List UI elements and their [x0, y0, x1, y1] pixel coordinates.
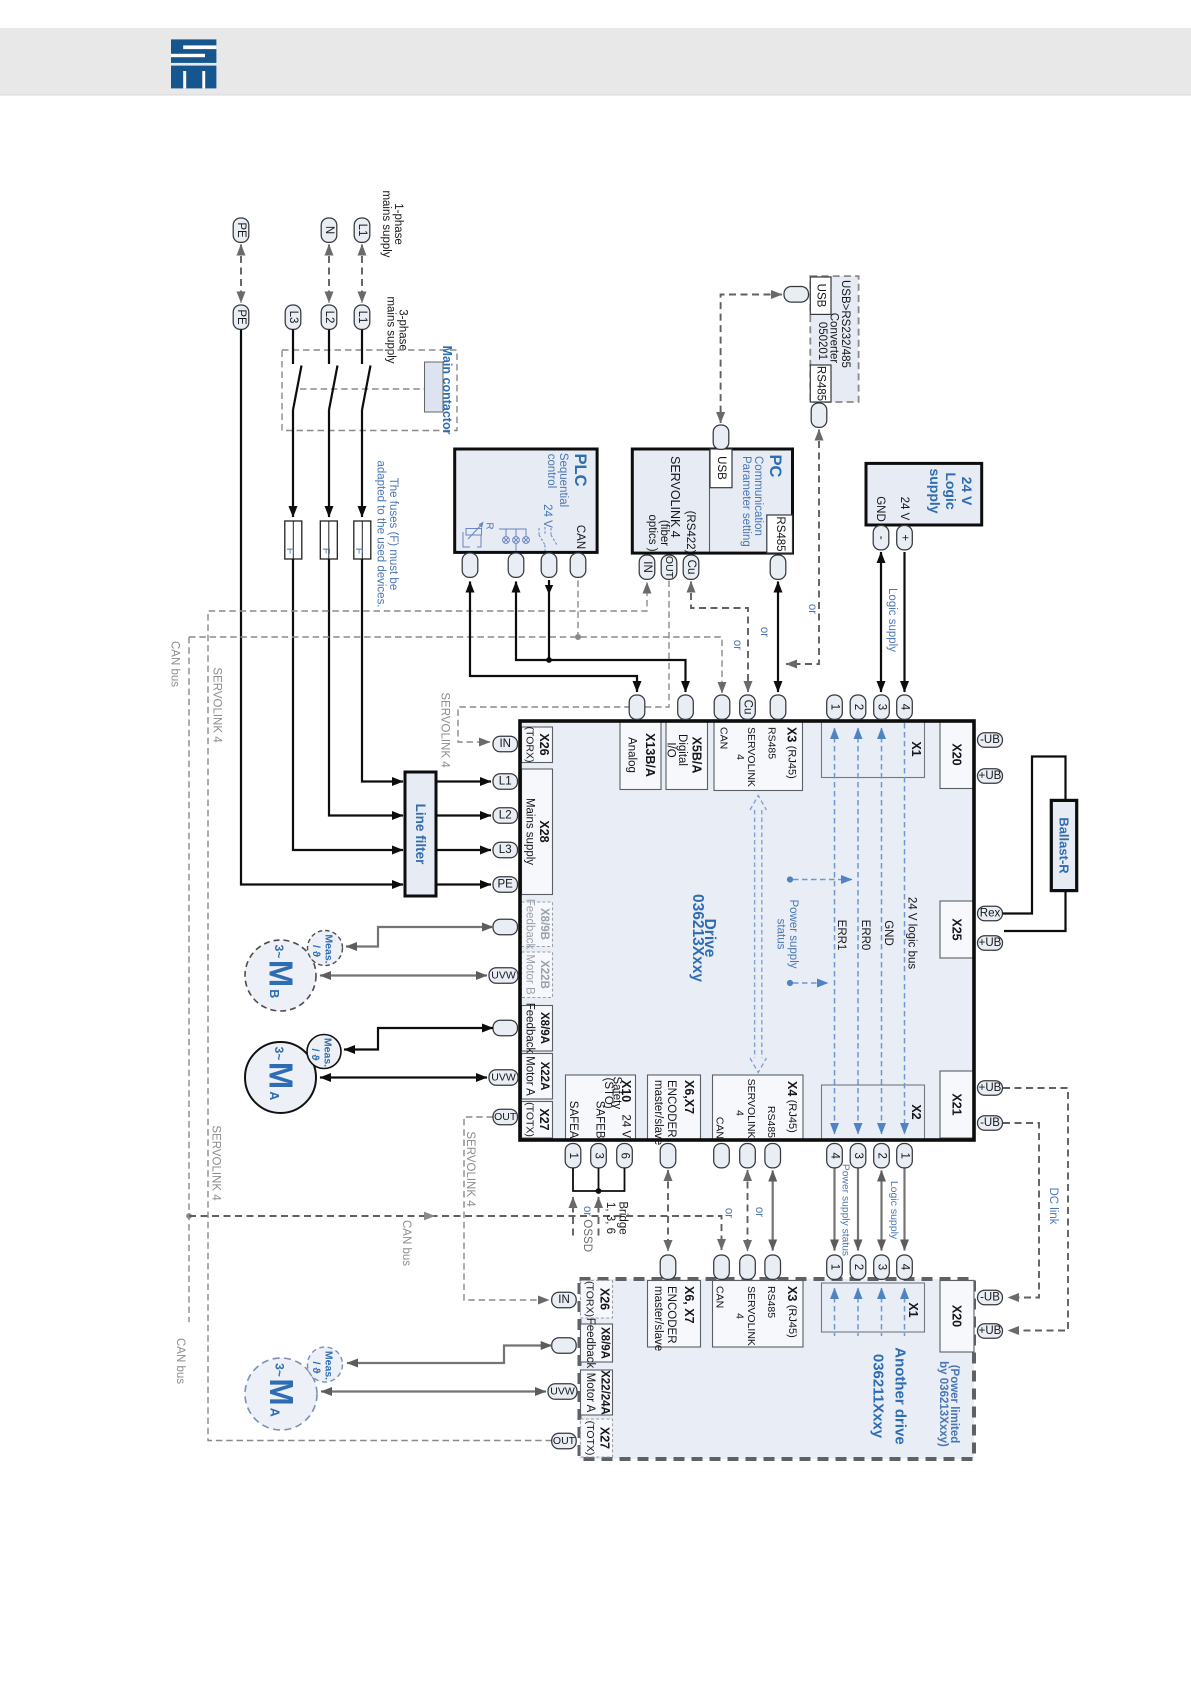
svg-text:1: 1 [899, 1152, 911, 1158]
svg-text:X20: X20 [950, 743, 964, 765]
24V plus pill [897, 526, 913, 550]
svg-text:UVW: UVW [491, 970, 516, 982]
wire UVW A [320, 1076, 487, 1078]
box X2 [822, 1085, 925, 1140]
svg-text:ENCODER: ENCODER [665, 1286, 677, 1344]
wire filter to L1 pill [436, 780, 491, 782]
fuse F3 [353, 521, 371, 559]
PC OUT fiber to drive IN [458, 581, 669, 743]
link col2 [880, 1171, 882, 1251]
PC USB subbox [710, 449, 732, 488]
strip X27 [522, 1102, 553, 1139]
motor A2 circle [245, 1358, 317, 1430]
drive bottom pill 2 [874, 1144, 890, 1168]
svg-text:Another drive: Another drive [892, 1347, 909, 1445]
drive right pill +UB [978, 769, 1003, 784]
strip X26 [522, 727, 553, 763]
svg-text:Cu: Cu [685, 560, 697, 575]
svg-text:24 V: 24 V [620, 1114, 632, 1138]
svg-text:mains supply: mains supply [385, 296, 397, 363]
svg-text:X6,X7: X6,X7 [682, 1080, 696, 1114]
svg-text:SERVOLINK 4: SERVOLINK 4 [210, 1125, 222, 1201]
junction dot CAN bus lower [186, 1213, 192, 1219]
box X1 lower [822, 1283, 925, 1332]
wire filter to L3 pill [436, 849, 491, 851]
svg-text:X13B/A: X13B/A [643, 733, 657, 777]
svg-text:Line filter: Line filter [413, 804, 428, 866]
svg-text:or: or [723, 1208, 735, 1218]
svg-text:RS485: RS485 [815, 366, 827, 401]
link col1 [903, 1169, 905, 1251]
drive top pill CAN [714, 695, 730, 719]
OSSD dashed 1 [572, 1197, 574, 1236]
svg-text:Feedback: Feedback [524, 1003, 536, 1054]
meas B circle [308, 931, 343, 966]
svg-text:The fuses (F) must be: The fuses (F) must be [387, 478, 399, 590]
svg-text:3: 3 [852, 1152, 864, 1158]
svg-text:Logic supply: Logic supply [886, 588, 898, 652]
svg-text:ENCODER: ENCODER [665, 1080, 677, 1138]
svg-text:4: 4 [829, 1152, 841, 1159]
svg-text:USB>RS232/485: USB>RS232/485 [839, 280, 851, 368]
contactor coil [425, 362, 444, 412]
wire 24V to pill4 [903, 552, 905, 692]
PLC box [455, 449, 597, 552]
lower top pill 1 [827, 1255, 843, 1279]
svg-text:4: 4 [734, 1110, 746, 1116]
svg-text:3: 3 [876, 1264, 888, 1270]
svg-text:3~: 3~ [273, 1363, 287, 1377]
svg-text:X27: X27 [537, 1108, 551, 1130]
lower top pill srv [740, 1255, 756, 1279]
meas A2 circle [308, 1347, 343, 1382]
svg-text:1: 1 [829, 704, 841, 710]
24V minus pill [873, 526, 889, 550]
box X20 [940, 721, 974, 789]
drive top pill 2 [850, 695, 866, 719]
drive bottom pill rs485 [765, 1144, 781, 1168]
CAN bus mid arrow [424, 1212, 435, 1221]
svg-text:2: 2 [876, 1152, 888, 1158]
drive left pill fbB [493, 919, 518, 935]
strip X13B/A [620, 721, 661, 790]
lower top pill 4 [897, 1255, 913, 1279]
drive top pill 1 [827, 695, 843, 719]
svg-text:X8/9A: X8/9A [538, 1012, 550, 1044]
svg-text:Meas.: Meas. [323, 1351, 335, 1380]
PC pill Cu [683, 555, 699, 579]
svg-text:1: 1 [829, 1264, 841, 1270]
wire converter RS485 or [786, 430, 819, 665]
drive bottom pill 3 [850, 1144, 866, 1168]
wire L1 dashed [361, 245, 363, 303]
svg-text:3: 3 [876, 704, 888, 710]
svg-text:X1: X1 [906, 1302, 920, 1317]
svg-text:4: 4 [734, 1313, 746, 1319]
blue stub 3 lower [881, 1288, 883, 1336]
svg-text:CAN: CAN [714, 1117, 726, 1139]
svg-text:Power supply: Power supply [787, 899, 799, 968]
box X25 [940, 901, 974, 958]
svg-text:F: F [320, 548, 332, 554]
OSSD dashed 2 [598, 1197, 600, 1236]
ballast wire top [1003, 757, 1066, 914]
svg-text:Rex: Rex [980, 908, 1001, 920]
svg-text:X22/24A: X22/24A [599, 1370, 611, 1415]
svg-text:(RS422): (RS422) [684, 511, 696, 554]
svg-text:4: 4 [899, 1264, 911, 1271]
CAN bus branch to lower drive [189, 1216, 722, 1250]
svg-text:Cu: Cu [742, 700, 754, 715]
wire PLC CAN drop [577, 581, 579, 635]
svg-text:-: - [875, 536, 887, 540]
drive top pill 3 [874, 695, 890, 719]
PLC pill 2 [508, 553, 524, 577]
wire PC RS485 to drive RS485 [777, 582, 779, 693]
wire L3 to fuse [292, 410, 294, 517]
svg-text:Feedback: Feedback [524, 899, 536, 950]
svg-text:USB: USB [815, 284, 827, 308]
strip X22/24A lower [581, 1370, 613, 1415]
svg-text:L1: L1 [499, 776, 512, 788]
plc switches [539, 527, 557, 551]
drive 036213Xxxy body [520, 721, 974, 1140]
drive bottom pill srv [740, 1144, 756, 1168]
ballast wire bottom [1004, 892, 1066, 931]
svg-text:X3 (RJ45): X3 (RJ45) [785, 727, 799, 779]
drive left pill UVW A [489, 1070, 518, 1086]
svg-text:L3: L3 [287, 311, 299, 324]
strip X8/9A lower [581, 1324, 613, 1362]
svg-text:Mains supply: Mains supply [524, 798, 536, 865]
svg-text:Motor A: Motor A [524, 1056, 536, 1096]
node PE 3-phase [233, 305, 249, 329]
drive top pill digital [678, 695, 694, 719]
USB converter box [810, 276, 858, 402]
fuse F1 [284, 521, 302, 559]
svg-text:(TORX): (TORX) [524, 727, 536, 763]
strip X4 [713, 1075, 804, 1140]
wire L1 to filter [362, 559, 403, 782]
svg-text:GND: GND [874, 496, 886, 522]
svg-text:PE: PE [235, 309, 247, 325]
blue stub 1 lower [834, 1288, 836, 1336]
lower top pill rs485 [765, 1255, 781, 1279]
drive left pill L3 [493, 842, 518, 858]
svg-text:(TOTX): (TOTX) [524, 1102, 536, 1137]
strip X5B/A [666, 721, 708, 790]
svg-text:PLC: PLC [571, 454, 589, 487]
motor B circle [245, 940, 316, 1011]
lower left pill OUT [552, 1433, 577, 1449]
drive right pill -UB X21 [978, 1116, 1003, 1131]
PC pill IN [639, 555, 655, 579]
lower left pill IN [552, 1292, 577, 1308]
lamps [499, 529, 529, 551]
svg-text:X1: X1 [909, 741, 923, 756]
svg-text:adapted to the used devices.: adapted to the used devices. [375, 460, 387, 607]
drive bottom pill CAN [714, 1144, 730, 1168]
wire L3 to filter [293, 559, 403, 850]
svg-text:2: 2 [852, 1264, 864, 1270]
motor A circle [245, 1042, 316, 1113]
svg-text:CAN: CAN [574, 525, 586, 549]
svg-text:Motor B: Motor B [524, 954, 536, 995]
wire L2 to filter [329, 559, 403, 816]
svg-text:SERVOLINK 4: SERVOLINK 4 [464, 1131, 476, 1207]
switch L3 [293, 330, 302, 411]
drive right pill -UB [978, 733, 1003, 748]
potentiometer R [463, 522, 495, 548]
DC link -UB [1003, 1123, 1039, 1298]
svg-text:L1: L1 [356, 224, 368, 237]
svg-text:4: 4 [734, 754, 746, 760]
svg-text:USB: USB [715, 456, 727, 480]
svg-text:F: F [353, 548, 365, 554]
svg-text:CAN: CAN [718, 727, 730, 749]
24V logic supply box [866, 463, 982, 525]
PC pill RS485 [770, 555, 786, 579]
switch L1 [362, 330, 371, 411]
svg-text:Power supply status: Power supply status [840, 1164, 851, 1256]
link col3 [857, 1169, 859, 1251]
svg-text:/ ϑ: / ϑ [309, 1049, 321, 1062]
drive bottom pill s1 [565, 1144, 581, 1168]
svg-text:(TORX): (TORX) [584, 1281, 596, 1317]
drive left pill UVW B [489, 968, 518, 984]
svg-text:RS485: RS485 [765, 1286, 777, 1318]
svg-text:master/slave: master/slave [652, 1080, 664, 1145]
svg-text:PC: PC [766, 455, 784, 478]
node L1 3-phase [354, 305, 370, 329]
drive bottom pill 4 [827, 1144, 843, 1168]
drive bottom pill s3 [591, 1144, 607, 1168]
lower top pill CAN [714, 1255, 730, 1279]
svg-text:Bridge: Bridge [617, 1201, 629, 1234]
drive right pill Rex [978, 906, 1003, 921]
drive left pill fbA [493, 1020, 518, 1036]
svg-text:+UB: +UB [979, 770, 1002, 782]
power status arrow 2 [787, 980, 793, 986]
wire GND to pill3 [880, 552, 882, 692]
wire UVW B [320, 974, 487, 976]
svg-text:3: 3 [593, 1152, 605, 1158]
svg-text:OUT: OUT [663, 556, 675, 579]
box X1 [822, 721, 925, 778]
PC pill OUT [661, 555, 677, 579]
svg-text:SERVOLINK 4: SERVOLINK 4 [211, 667, 223, 743]
wire feedback A [344, 1028, 493, 1050]
drive bottom pill 1 [897, 1144, 913, 1168]
switch L2 [329, 330, 338, 411]
junction dot PLC CAN [575, 634, 581, 640]
svg-text:GND: GND [882, 920, 894, 946]
node L2 [321, 305, 337, 329]
drive bottom pill s6 [617, 1144, 633, 1168]
svg-text:Logic: Logic [943, 472, 959, 510]
svg-text:+: + [899, 534, 911, 541]
strip X27 lower [581, 1419, 613, 1457]
svg-text:X20: X20 [950, 1305, 964, 1327]
wire feedback B [346, 927, 493, 947]
contactor linkage [300, 388, 424, 390]
svg-text:R: R [484, 522, 495, 529]
svg-text:036213Xxxy: 036213Xxxy [689, 894, 706, 982]
wire PE to filter [241, 330, 403, 885]
node L1 1-phase [354, 218, 370, 242]
encoder link [667, 1170, 669, 1251]
svg-text:-UB: -UB [980, 1292, 1000, 1304]
svg-text:X4 (RJ45): X4 (RJ45) [785, 1081, 799, 1133]
svg-text:control: control [545, 454, 557, 489]
svg-text:X22B: X22B [538, 960, 550, 989]
bridge 1 3 6 [573, 1168, 625, 1191]
drive left pill OUT [493, 1109, 518, 1125]
wire feedback A2 [347, 1346, 552, 1364]
svg-text:Analog: Analog [626, 737, 638, 773]
strip X8/9B [522, 902, 553, 947]
svg-text:050201: 050201 [816, 322, 828, 360]
svg-text:24 V logic bus: 24 V logic bus [906, 897, 918, 969]
svg-text:-UB: -UB [980, 734, 1000, 746]
svg-text:2: 2 [852, 704, 864, 710]
svg-text:master/slave: master/slave [652, 1286, 664, 1351]
CAN bus horizontal to drive CAN pill [189, 637, 722, 693]
svg-text:+UB: +UB [979, 937, 1002, 949]
svg-text:L2: L2 [323, 311, 335, 324]
svg-text:Sequential: Sequential [557, 453, 569, 507]
power status arrow 1 [787, 876, 793, 882]
node PE 1-phase [233, 218, 249, 242]
svg-text:X6, X7: X6, X7 [682, 1286, 696, 1324]
svg-text:Meas.: Meas. [323, 934, 335, 963]
drive top pill 4 [897, 695, 913, 719]
another drive body [580, 1279, 975, 1459]
svg-text:PE: PE [235, 222, 247, 238]
svg-text:by 036213Xxxy): by 036213Xxxy) [937, 1361, 949, 1447]
internal SERVOLINK4 hollow arrow [750, 796, 766, 1073]
svg-text:Feedback: Feedback [584, 1318, 596, 1369]
svg-text:3-phase: 3-phase [397, 309, 409, 351]
svg-text:IN: IN [641, 561, 653, 573]
svg-text:X8/9B: X8/9B [538, 908, 550, 940]
strip X22A [522, 1054, 553, 1100]
svg-text:X28: X28 [537, 820, 551, 842]
servolink link [747, 1170, 749, 1251]
meas A circle [307, 1035, 341, 1069]
drive bottom pill enc [660, 1144, 676, 1168]
svg-text:X3 (RJ45): X3 (RJ45) [785, 1286, 799, 1338]
converter USB pill [784, 287, 809, 303]
line filter [405, 772, 436, 896]
svg-text:SERVOLINK: SERVOLINK [745, 1079, 757, 1139]
drive left pill L1 [493, 774, 518, 790]
lower top pill enc [660, 1255, 676, 1279]
svg-text:optics ): optics ) [646, 514, 658, 551]
svg-text:1-phase: 1-phase [392, 203, 404, 245]
svg-text:L3: L3 [499, 844, 512, 856]
svg-text:CAN: CAN [714, 1286, 726, 1308]
lower top pill 2 [850, 1255, 866, 1279]
svg-text:4: 4 [899, 704, 911, 711]
lower right pill +UB [978, 1324, 1003, 1339]
lower right pill -UB [978, 1290, 1003, 1305]
fuse F2 [320, 521, 337, 559]
wire L1 to fuse [361, 410, 363, 517]
svg-text:OUT: OUT [494, 1111, 517, 1123]
svg-text:Parameter setting: Parameter setting [740, 456, 752, 547]
svg-text:OUT: OUT [553, 1435, 576, 1447]
drive left pill L2 [493, 808, 518, 824]
wire PC Cu to drive Cu [691, 582, 748, 693]
svg-text:or: or [753, 1207, 765, 1217]
svg-text:UVW: UVW [491, 1072, 516, 1084]
wire filter to L2 pill [436, 814, 491, 816]
drive right pill +UB X21 [978, 1081, 1003, 1096]
svg-text:(TOTX): (TOTX) [584, 1421, 596, 1456]
svg-text:F: F [284, 548, 296, 554]
svg-text:N: N [323, 226, 335, 234]
svg-text:+UB: +UB [979, 1082, 1002, 1094]
wire PLC2 to digital pill [516, 582, 686, 693]
svg-text:1, 3, 6: 1, 3, 6 [604, 1202, 616, 1234]
wire L2 to fuse [328, 410, 330, 517]
box X20 lower [940, 1281, 974, 1353]
svg-text:24 V: 24 V [541, 504, 553, 528]
strip X6X7 [648, 1075, 701, 1140]
svg-text:Motor A: Motor A [584, 1373, 596, 1413]
svg-text:/ ϑ: / ϑ [310, 1362, 322, 1375]
svg-text:SAFEB: SAFEB [594, 1101, 606, 1139]
svg-text:ERR1: ERR1 [835, 920, 847, 951]
wire PLC1 to analog pill [470, 582, 637, 693]
PC box [632, 449, 792, 553]
svg-text:L2: L2 [499, 810, 512, 822]
svg-text:X5B/A: X5B/A [690, 737, 704, 774]
PLC pill CAN [570, 553, 586, 577]
svg-text:X2: X2 [909, 1104, 923, 1119]
strip X6X7 lower [648, 1281, 701, 1348]
svg-text:L1: L1 [356, 311, 368, 324]
strip X10 [566, 1075, 636, 1140]
svg-text:X26: X26 [537, 733, 551, 755]
svg-text:PE: PE [498, 879, 514, 891]
svg-text:CAN bus: CAN bus [400, 1220, 412, 1266]
strip X8/9A [522, 1006, 553, 1052]
PLC pill 1 [462, 553, 478, 577]
converter RS485 pill [811, 403, 827, 427]
node L3 [285, 305, 301, 329]
svg-text:SERVOLINK 4: SERVOLINK 4 [439, 692, 451, 768]
svg-text:X22A: X22A [538, 1062, 550, 1091]
svg-text:24 V: 24 V [898, 497, 910, 521]
svg-text:3~: 3~ [272, 1047, 286, 1061]
blue bus line 2 [857, 728, 859, 1134]
pill above PC USB [713, 425, 729, 449]
SERVOLINK4 fiber return to PC IN [208, 583, 647, 1441]
converter USB subbox [810, 277, 831, 314]
svg-text:I/O: I/O [665, 742, 677, 757]
svg-text:Converter: Converter [828, 313, 840, 364]
drive left pill IN [493, 736, 518, 752]
svg-text:+UB: +UB [979, 1325, 1002, 1337]
link col4 [833, 1169, 835, 1251]
svg-text:DC link: DC link [1047, 1187, 1059, 1224]
PC RS485 subbox [767, 515, 793, 553]
lower left pill fb [552, 1338, 577, 1354]
svg-text:-UB: -UB [980, 1117, 1000, 1129]
svg-text:or OSSD: or OSSD [581, 1206, 593, 1252]
